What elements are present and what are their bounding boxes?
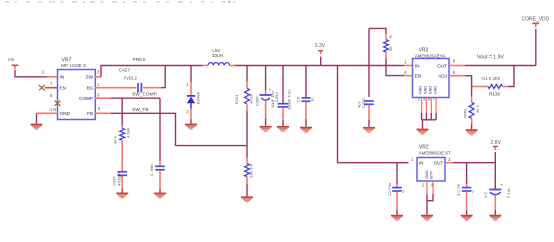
ground (FB divider) [241,197,253,202]
capacitor polarized VR2 output (x495.3) [483,163,511,215]
resistor EN pullup (x386) [369,28,413,75]
wire SW pin to PRES rail [95,66,203,77]
svg-text:4700pF: 4700pF [116,172,121,186]
svg-text:6: 6 [97,93,100,98]
svg-text:OUT: OUT [437,63,447,68]
wire VR3 OUT to CORE_VDD [449,65,536,67]
svg-text:C427: C427 [119,68,130,73]
no-connect X on VR7 pin 8 [55,101,61,106]
svg-text:EN: EN [415,73,422,78]
IC VR2 AME8805 [417,144,451,181]
svg-text:56R1: 56R1 [462,108,467,118]
VR3 gnd pin stubs and bus [422,98,437,129]
svg-text:B340A: B340A [196,92,201,104]
capacitor C427 (bootstrap BS-SW) [95,66,165,93]
wire 3.3V rail [235,65,404,67]
svg-text:4 N: 4 N [50,107,57,112]
svg-text:5: 5 [453,70,456,75]
ground (diode) [185,125,197,130]
wire Vin to VR7 IN [15,70,58,77]
svg-text:4: 4 [404,70,407,75]
svg-text:SW_FB: SW_FB [132,107,149,113]
svg-text:%1 K 2E0: %1 K 2E0 [482,76,501,81]
power flag 3.3V [315,43,326,66]
capacitor comp branch B [149,98,165,192]
svg-text:R138: R138 [489,92,500,97]
capacitor VR2 input (x397) [387,163,406,215]
svg-text:MP 1410E S: MP 1410E S [61,63,86,68]
svg-text:V: V [400,190,405,193]
svg-text:VR2: VR2 [419,144,429,150]
svg-text:4 C: 4 C [483,192,488,198]
wire ADJ node [449,76,472,87]
svg-text:FB: FB [87,111,93,116]
svg-text:GND: GND [60,111,71,116]
svg-text:100uF 6.3V: 100uF 6.3V [287,89,292,110]
svg-text:40.2K: 40.2K [249,93,254,104]
svg-text:1: 1 [404,60,407,65]
svg-text:IN: IN [419,161,424,166]
wire rail to VR2 input [338,66,409,163]
svg-text:SW_COMP: SW_COMP [132,91,157,97]
svg-text:IN: IN [415,63,420,68]
capacitor (x283 on rail) [274,66,292,126]
pin numbers 2 3 6 7 (VR3 GND) [418,96,436,101]
svg-text:2: 2 [186,109,189,114]
resistor ADJ lower [462,87,480,130]
svg-text:C2 F4u: C2 F4u [387,183,392,196]
ground (cap x306) [300,128,312,133]
svg-text:GND: GND [422,86,427,95]
svg-text:1: 1 [411,157,414,162]
capacitor (x306 on rail) [296,66,315,127]
wire FB (net SW_FB) [95,113,247,145]
ground (polar cap VR2) [489,216,501,221]
ground (cap x466.6) [461,216,473,221]
inductor L54 33uH [203,48,236,66]
resistor comp branch A [113,98,131,144]
wire VR2 OUT to 2.8V [445,162,495,164]
svg-text:ADJ: ADJ [438,73,447,78]
svg-text:VR3: VR3 [419,47,429,53]
svg-text:Vout = 1.9V: Vout = 1.9V [477,54,505,60]
svg-text:7: 7 [50,81,53,86]
svg-text:3: 3 [97,70,100,75]
svg-text:EN: EN [60,86,67,91]
ground (VR7 GND) [31,125,43,130]
svg-text:OUT: OUT [434,161,444,166]
svg-text:8: 8 [453,58,456,63]
svg-text:C394: C394 [274,92,279,102]
svg-text:C424: C424 [361,98,366,108]
svg-text:COMP: COMP [79,96,93,101]
svg-text:33uH: 33uH [212,53,223,58]
svg-text:1n: 1n [309,98,314,102]
svg-text:39.4: 39.4 [113,135,118,144]
svg-text:R: R [388,35,393,38]
ground (ADJ divider) [466,130,478,135]
svg-text:8: 8 [50,93,53,98]
sheet title text (clipped at top) [5,1,236,3]
IC VR3 AME8815AEHA [413,47,450,97]
IC VR7 MP1410ES [58,58,96,120]
svg-text:R141: R141 [234,94,239,104]
svg-text:5: 5 [98,106,101,111]
svg-text:Fv10.2: Fv10.2 [124,75,137,80]
ground (VR2 GND) [421,216,433,221]
svg-text:C3: C3 [296,96,301,102]
svg-text:SW: SW [85,75,93,80]
capacitor polarized (x265.6 on rail) [255,66,276,126]
VR3 IN pin stub [404,65,413,67]
power flag CORE_VDD [522,17,550,66]
svg-text:4u7: 4u7 [356,101,361,108]
VR2 bottom pins to ground [427,181,433,215]
svg-text:3 C F6: 3 C F6 [456,183,461,196]
svg-text:56: 56 [388,46,393,51]
svg-text:BS: BS [87,86,93,91]
svg-text:+: + [500,183,503,188]
ground (cap x397) [391,216,403,221]
capacitor C424 (x369 on rail) [356,28,374,126]
ground (C424) [363,128,375,133]
svg-text:Vin: Vin [8,57,15,62]
wire COMP (net SW_COMP) [95,97,160,99]
svg-text:C .68n: C .68n [149,164,154,176]
svg-text:PRES: PRES [133,57,146,63]
resistor R138 [472,66,514,97]
svg-text:C385: C385 [255,96,260,106]
ground (comp branch B) [154,193,166,198]
svg-text:BYP: BYP [430,171,434,179]
svg-text:2: 2 [42,70,45,75]
capacitor VR2 output (x466.6) [456,163,475,215]
svg-text:GND: GND [425,170,429,179]
wire VR7 GND pin [37,113,58,124]
ground (cap x283) [277,127,289,132]
svg-text:V: V [470,190,475,193]
svg-text:2.8V: 2.8V [491,140,502,146]
ground (polar cap rail) [260,127,272,132]
svg-text:2K 5: 2K 5 [475,104,480,113]
svg-text:CORE_VDD: CORE_VDD [522,17,550,23]
svg-text:GND: GND [433,86,438,95]
ground (comp branch A) [116,193,128,198]
svg-text:1: 1 [97,82,100,87]
resistor FB divider upper (x247) [234,66,254,146]
svg-text:3.3V: 3.3V [315,43,326,49]
no-connect X on VR7 EN [39,85,45,90]
ground (VR3 GND) [417,130,429,135]
svg-text:F 1W: F 1W [506,188,511,198]
power flag 2.8V [491,140,502,163]
svg-text:3: 3 [448,157,451,162]
svg-text:IN: IN [60,75,65,80]
resistor FB divider lower (x247) [245,146,254,197]
power flag Vin [8,57,19,69]
VR7 EN pin stub [45,87,58,89]
diode D (freewheel, SW node) [186,66,200,124]
svg-text:13K 1%: 13K 1% [249,164,254,178]
svg-text:AME8815AEHA: AME8815AEHA [415,53,446,58]
svg-text:1: 1 [186,82,189,87]
capacitor comp branch A [112,140,128,192]
svg-text:4.99K: 4.99K [125,127,130,138]
svg-text:AME8805OE ST: AME8805OE ST [419,151,451,156]
svg-text:2: 2 [422,183,425,188]
